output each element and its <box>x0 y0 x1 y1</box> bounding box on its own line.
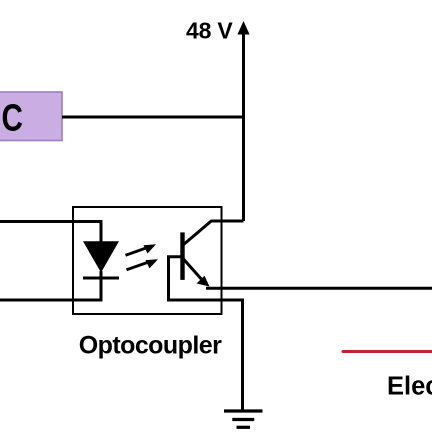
phototransistor Q1 <box>180 221 243 287</box>
light emission arrow 2 <box>127 259 159 270</box>
svg-text:Optocoupler: Optocoupler <box>79 331 222 359</box>
wire emitter output <box>206 287 432 290</box>
legend red line (electrical connection) <box>343 350 432 353</box>
wire LED anode input <box>0 222 101 243</box>
optocoupler box <box>73 207 222 314</box>
svg-text:Electrical: Electrical <box>387 372 432 400</box>
ground <box>224 411 263 427</box>
LED D1 <box>83 241 119 278</box>
PLC block <box>0 92 62 141</box>
wire PLC to 48V rail <box>62 116 245 119</box>
svg-text:48 V: 48 V <box>186 17 233 43</box>
wire base to ground <box>169 257 243 411</box>
48V supply rail with arrow <box>237 21 249 221</box>
svg-text:C: C <box>2 97 23 139</box>
wire LED cathode output <box>0 271 101 300</box>
light emission arrow 1 <box>126 244 157 255</box>
